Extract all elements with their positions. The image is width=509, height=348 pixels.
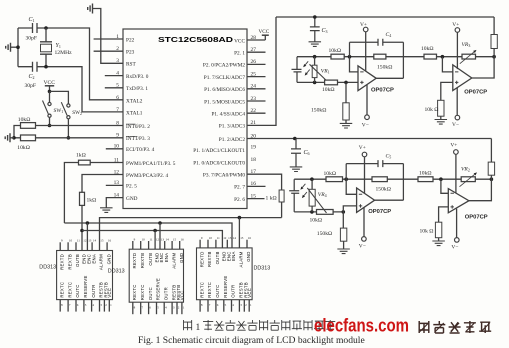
wire U3 + input to bias resistor — [441, 82, 453, 100]
svg-text:11: 11 — [77, 239, 80, 243]
wire U6 top pin ENA stub — [91, 242, 93, 250]
wire + input bias resistor drop row2 — [342, 212, 344, 228]
wire pin 13 stub — [106, 184, 123, 186]
wire row1 node line — [297, 56, 331, 58]
wire U8 bottom pin OUTC stub — [215, 300, 217, 312]
wire U8 top pin REXTD stub — [199, 240, 201, 248]
resistor 10kOhm (U5 bias) — [435, 222, 441, 238]
svg-text:P1. 7/SCLK/ADC7: P1. 7/SCLK/ADC7 — [204, 75, 246, 81]
wire node to feedback resistor — [344, 56, 374, 58]
wire U6 bottom pin VCC stub — [108, 300, 110, 312]
svg-text:13: 13 — [228, 236, 232, 240]
svg-text:C2: C2 — [29, 74, 35, 80]
svg-text:ENA: ENA — [91, 254, 96, 264]
svg-text:VCC: VCC — [234, 38, 245, 44]
light arrows onto sensor row2 — [302, 184, 305, 188]
svg-text:10kΩ: 10kΩ — [324, 171, 337, 177]
wire pin 12 PWM3 down to vertical 1k — [82, 175, 123, 193]
wire U6 bottom pin RESTB stub — [99, 300, 101, 312]
terminal V- (U2) — [366, 85, 368, 115]
svg-text:13: 13 — [88, 239, 92, 243]
svg-text:ECI/T0/P3. 4: ECI/T0/P3. 4 — [126, 147, 155, 153]
svg-text:9: 9 — [116, 133, 119, 139]
svg-text:C3: C3 — [322, 28, 328, 34]
wire + input bias resistor drop — [345, 82, 347, 102]
wire U6 bottom pin RESERVE stub — [83, 300, 85, 312]
svg-text:DD313: DD313 — [108, 268, 125, 274]
wire pin 2 stub — [94, 50, 123, 52]
svg-text:PWM1/PCA1/T1/P3. 5: PWM1/PCA1/T1/P3. 5 — [126, 161, 176, 167]
svg-text:C5: C5 — [386, 153, 392, 159]
svg-text:25: 25 — [251, 71, 257, 77]
wire U4 output — [375, 199, 404, 201]
wire rail 1 (top sensor excitation rail) — [276, 16, 494, 18]
resistor 150kOhm (U2 bias) — [343, 103, 349, 120]
wire XTAL2 net: C1/crystal top node to pin 6 — [46, 28, 123, 100]
wire U6 bottom pin OUTR stub — [91, 300, 93, 312]
svg-text:VR4: VR4 — [318, 192, 327, 198]
photoresistor VR4 — [310, 177, 314, 181]
capacitor C1 30pF — [33, 23, 38, 33]
svg-text:OP07CP: OP07CP — [368, 209, 391, 215]
node L1 to chip3 — [238, 216, 242, 220]
IC U7 DD313 body — [129, 249, 183, 302]
svg-text:VCC: VCC — [259, 29, 270, 35]
svg-text:STC12C5608AD: STC12C5608AD — [158, 35, 234, 44]
svg-text:14: 14 — [166, 237, 170, 241]
svg-text:V−: V− — [451, 245, 458, 251]
wire left sensor rail row1 with series capacitor — [292, 57, 302, 83]
svg-text:V+: V+ — [450, 143, 457, 149]
terminal V- (U3) — [456, 88, 458, 116]
node crystal bottom — [44, 65, 48, 69]
svg-text:18: 18 — [251, 157, 257, 163]
svg-text:1: 1 — [196, 323, 201, 333]
svg-text:16: 16 — [181, 237, 185, 241]
resistor 10kOhm (VR4 top to node) — [326, 177, 343, 182]
wire U7 top pin REXTB stub — [140, 241, 142, 249]
svg-text:INT0/P3. 2: INT0/P3. 2 — [126, 124, 150, 130]
wire pin 11 PWM1 to 1k and down to bus line L2 — [64, 163, 123, 224]
svg-text:22: 22 — [251, 108, 257, 114]
svg-text:1kΩ: 1kΩ — [76, 153, 86, 159]
capacitor C2 30pF — [33, 62, 38, 72]
wire VCC to SW2 top — [50, 91, 69, 104]
svg-text:16: 16 — [248, 236, 252, 240]
svg-text:12: 12 — [223, 236, 227, 240]
resistor 10kOhm (INT1 pull-down) — [21, 135, 36, 141]
terminal V- (U5) — [456, 209, 458, 238]
svg-text:REXTD: REXTD — [199, 251, 204, 267]
svg-text:REXTC: REXTC — [207, 282, 212, 298]
crystal Y1 12MHz — [40, 28, 52, 67]
node rail2 C6 tap — [293, 137, 297, 141]
svg-text:14: 14 — [114, 192, 120, 198]
wire U7 top pin OUTB stub — [148, 241, 150, 249]
ground (U2 bias resistor) — [340, 123, 353, 128]
svg-text:Fig. 1 Schematic circuit dia: Fig. 1 Schematic circuit diagram of LCD … — [138, 335, 365, 346]
svg-text:10: 10 — [142, 237, 146, 241]
svg-text:ALARM: ALARM — [171, 253, 176, 269]
svg-text:30pF: 30pF — [26, 36, 38, 42]
svg-text:10kΩ: 10kΩ — [322, 87, 335, 93]
svg-text:27: 27 — [251, 47, 257, 53]
ground (U4 bias resistor) — [337, 249, 350, 254]
svg-text:10: 10 — [114, 144, 120, 150]
svg-text:10kΩ: 10kΩ — [421, 46, 434, 52]
resistor 1kOhm (PWM0 series, vertical) — [279, 190, 284, 202]
svg-text:VCC: VCC — [107, 288, 112, 298]
svg-text:P1. 5/MOSI/ADC5: P1. 5/MOSI/ADC5 — [204, 99, 245, 105]
wire pin 21 P1.3/ADC3 up to sensor rail 1 — [247, 17, 276, 125]
svg-text:TxD/P3. 1: TxD/P3. 1 — [126, 86, 148, 92]
svg-text:elecfans.com: elecfans.com — [314, 315, 409, 336]
node L2 chip2 drop — [158, 221, 162, 225]
wire U7 bottom pin RESTB stub — [171, 302, 173, 314]
wire U8 bottom pin OUTR stub — [231, 300, 233, 312]
switch SW2 — [67, 104, 70, 107]
svg-text:10k Ω: 10k Ω — [425, 107, 439, 113]
wire U8 bottom pin RESERVE stub — [223, 300, 225, 312]
svg-text:DD313: DD313 — [254, 266, 271, 272]
resistor 10kOhm (U5 input) — [418, 177, 433, 182]
wire pin 24 stub — [247, 88, 266, 90]
wire U7 bottom pin REXTC stub — [140, 302, 142, 314]
wire U6 top pin GND stub — [106, 242, 108, 250]
wire U7 top pin GND stub — [179, 241, 181, 249]
svg-text:V+: V+ — [359, 145, 366, 151]
wire VR4 bottom rail row2 — [294, 211, 343, 213]
wire U8 top pin ENC stub — [226, 240, 228, 248]
svg-text:P22: P22 — [126, 37, 135, 43]
ground (top left, sideways) for RST net — [88, 4, 93, 14]
wire U8 bottom pin REXTC stub — [199, 300, 201, 312]
svg-text:OUTC: OUTC — [75, 284, 80, 297]
svg-text:OUTB: OUTB — [215, 251, 220, 264]
wire pin 5 stub — [105, 87, 123, 89]
svg-text:V−: V− — [362, 122, 369, 128]
svg-text:GND: GND — [126, 196, 138, 202]
wire U6 bottom pin RESTB stub — [103, 300, 105, 312]
light arrows onto sensor row1 — [305, 61, 308, 65]
svg-text:VCC: VCC — [247, 288, 252, 298]
svg-text:2: 2 — [116, 46, 119, 52]
wire U7 bottom pin OUTC stub — [148, 302, 150, 314]
svg-text:P1. 1/ADC1/CLKOUT1: P1. 1/ADC1/CLKOUT1 — [193, 148, 245, 154]
svg-text:150kΩ: 150kΩ — [311, 107, 326, 113]
svg-text:P2. 5: P2. 5 — [126, 184, 137, 190]
wire L1 drop to chip3 — [238, 218, 240, 248]
svg-text:REXTC: REXTC — [199, 282, 204, 298]
svg-text:P1. 2/ADC2: P1. 2/ADC2 — [219, 137, 246, 143]
resistor 10kOhm (rail1 to U3 node, vertical) — [493, 17, 495, 57]
svg-text:C1: C1 — [29, 17, 35, 23]
svg-text:V−: V− — [359, 244, 366, 250]
svg-text:6: 6 — [116, 95, 119, 101]
svg-text:OP07CP: OP07CP — [371, 87, 394, 93]
wire left capacitor rail — [17, 28, 19, 67]
IC U1 STC12C5608AD body — [123, 29, 247, 209]
wire pin 26 stub — [247, 63, 266, 65]
capacitor C6 (rail2 decoupling) — [291, 139, 301, 167]
svg-text:10kΩ: 10kΩ — [17, 145, 30, 151]
svg-text:V−: V− — [452, 122, 459, 128]
wire jog to U4 + input — [343, 206, 356, 212]
svg-text:ALARM: ALARM — [239, 251, 244, 267]
wire SW1 to INT0 row — [49, 117, 51, 125]
op-amp U4 OP07CP (row2 left) — [357, 188, 375, 212]
wire pin 23 stub — [247, 100, 266, 102]
capacitor C5 (U4 feedback) — [346, 160, 403, 200]
svg-text:P1. 3/ADC3: P1. 3/ADC3 — [219, 124, 246, 130]
svg-text:DD313: DD313 — [39, 264, 56, 270]
svg-text:30pF: 30pF — [25, 83, 37, 89]
wire pin 16 stub — [247, 185, 266, 187]
resistor 10kOhm (INT0 pull-down) — [21, 123, 36, 129]
svg-text:10: 10 — [69, 239, 73, 243]
svg-text:5: 5 — [116, 83, 119, 89]
wire pin 22 stub — [247, 112, 266, 114]
wire pin 28 to VCC symbol — [247, 35, 265, 40]
wire bus line L1 (EN net 1) — [100, 218, 282, 251]
wire pin 10 stub — [106, 148, 123, 150]
wire U6 bottom pin OUTC stub — [75, 300, 77, 312]
terminal V- (U4) — [363, 207, 365, 236]
wire pin 15 stub — [247, 198, 265, 200]
svg-text:REXTB: REXTB — [67, 254, 72, 270]
switch SW1 — [48, 102, 51, 105]
svg-text:REXTC: REXTC — [140, 284, 145, 300]
svg-text:19: 19 — [251, 145, 257, 151]
wire L2 drop chip2 — [159, 223, 161, 249]
svg-text:OUTR: OUTR — [163, 287, 168, 300]
wire 1k down to bus line L1 — [281, 202, 283, 218]
wire U7 bottom pin OUTR stub — [163, 302, 165, 314]
svg-text:REXTC: REXTC — [67, 282, 72, 298]
node L3 chip2 drop — [153, 229, 157, 233]
svg-text:REXTC: REXTC — [59, 282, 64, 298]
svg-text:REXTB: REXTB — [140, 253, 145, 269]
svg-text:14: 14 — [233, 236, 237, 240]
wire U8 top pin OUTB stub — [215, 240, 217, 248]
svg-text:23: 23 — [251, 96, 257, 102]
power VCC symbol at pin 28 — [262, 34, 269, 36]
wire pin 20 P1.2/ADC2 rail 2 — [247, 138, 491, 140]
watermark Chinese brand — [419, 321, 429, 333]
wire pin 1 stub — [94, 38, 123, 40]
svg-text:15: 15 — [240, 236, 244, 240]
resistor 10kOhm (U3 input) — [424, 54, 437, 59]
svg-text:1kΩ: 1kΩ — [87, 198, 97, 204]
wire VR1 bottom rail to U2 + input — [297, 81, 358, 83]
svg-text:13: 13 — [114, 180, 120, 186]
svg-text:10kΩ: 10kΩ — [329, 48, 342, 54]
svg-text:GND: GND — [106, 254, 111, 264]
svg-text:10kΩ: 10kΩ — [18, 117, 31, 123]
resistor 10kOhm (rail2 to U5 node, vertical) — [490, 139, 492, 180]
ground (U5 bias resistor) — [432, 241, 445, 246]
svg-text:11: 11 — [114, 157, 119, 163]
svg-text:P2. 7: P2. 7 — [234, 185, 245, 191]
wire U8 top pin REXTB stub — [207, 240, 209, 248]
wire node to U2 inverting input — [350, 57, 359, 72]
resistor 10kOhm (VR1 top to node) — [331, 54, 344, 59]
op-amp U5 OP07CP (row2 right) — [448, 189, 469, 213]
svg-text:INT1/P3. 3: INT1/P3. 3 — [126, 136, 150, 142]
wire SW2 to INT1 row — [67, 119, 69, 138]
svg-text:12MHz: 12MHz — [55, 50, 73, 56]
svg-text:P3. 7/PCA0/PWM0: P3. 7/PCA0/PWM0 — [203, 173, 245, 179]
resistor 10kOhm (VR1 bottom) — [325, 80, 338, 85]
svg-text:4: 4 — [116, 70, 119, 76]
svg-text:REXTD: REXTD — [132, 253, 137, 269]
svg-text:7: 7 — [116, 107, 119, 113]
svg-text:12: 12 — [114, 169, 120, 175]
svg-text:ALARM: ALARM — [99, 254, 104, 270]
svg-text:P1. 0/ADC0/CLKOUT0: P1. 0/ADC0/CLKOUT0 — [193, 160, 245, 166]
wire row2 node line — [294, 178, 326, 180]
wire node to U4 inverting input — [346, 179, 356, 194]
op-amp U2 OP07CP (row1 left) — [358, 66, 376, 91]
ground (C6) — [290, 167, 303, 172]
wire U5 output feedback — [469, 179, 492, 201]
wire U6 top pin REXTB stub — [67, 242, 69, 250]
svg-text:XTAL2: XTAL2 — [126, 98, 143, 104]
wire bus line L3 (EN net 3) — [82, 231, 222, 248]
svg-text:Y1: Y1 — [56, 43, 61, 49]
svg-text:P1. 6/MISO/ADC6: P1. 6/MISO/ADC6 — [204, 87, 245, 93]
node L2 chip1 drop — [86, 221, 90, 225]
svg-text:10kΩ: 10kΩ — [310, 218, 323, 224]
wire pin 4 stub — [105, 75, 123, 77]
wire L3 drop chip2 — [154, 231, 156, 250]
ground (U3 bias resistor) — [435, 120, 448, 125]
wire left sensor rail row2 with series capacitor — [289, 179, 299, 212]
svg-text:ENA: ENA — [164, 253, 169, 263]
IC U8 DD313 body — [197, 248, 253, 300]
svg-text:8: 8 — [116, 120, 119, 126]
svg-text:P1. 4/SS/ADC4: P1. 4/SS/ADC4 — [211, 112, 245, 118]
resistor 150kOhm (U2 feedback) — [374, 54, 386, 59]
svg-text:P2. 6: P2. 6 — [234, 197, 245, 203]
svg-text:REXTB: REXTB — [207, 251, 212, 267]
wire pin 17 PWM0 to vertical 1k — [247, 174, 282, 190]
svg-text:RESERVE: RESERVE — [156, 278, 161, 300]
wire U5 inverting input — [441, 179, 448, 193]
wire U6 bottom pin REXTC stub — [67, 300, 69, 312]
svg-text:15: 15 — [173, 237, 177, 241]
svg-text:GND: GND — [246, 251, 251, 261]
svg-text:P2. 0/PCA2/PWM2: P2. 0/PCA2/PWM2 — [203, 63, 245, 69]
wire U6 bottom pin REXTC stub — [59, 300, 61, 312]
wire resistor commons to ground — [14, 126, 21, 138]
svg-text:1 kΩ: 1 kΩ — [266, 195, 277, 201]
wire bus line L2 (EN net 2) — [64, 223, 232, 248]
svg-text:OUTB: OUTB — [75, 254, 80, 267]
ground (switch resistors, sideways) — [5, 133, 10, 142]
wire ground to rail — [11, 46, 19, 48]
svg-text:11: 11 — [217, 236, 220, 240]
svg-text:PWM3/PCA3/P2. 4: PWM3/PCA3/P2. 4 — [126, 173, 168, 179]
svg-text:RxD/P3. 0: RxD/P3. 0 — [126, 74, 149, 80]
wire U8 bottom pin RESTB stub — [243, 300, 245, 312]
svg-text:24: 24 — [251, 84, 257, 90]
wire U7 bottom pin REXTC stub — [132, 302, 134, 314]
svg-text:15: 15 — [100, 239, 104, 243]
svg-text:OUTC: OUTC — [215, 285, 220, 298]
wire U8 top pin GND stub — [246, 240, 248, 248]
wire U3 output feedback — [472, 57, 494, 78]
ground (C3) — [309, 42, 322, 47]
svg-text:16: 16 — [108, 239, 112, 243]
wire U3 inverting input — [442, 57, 452, 72]
svg-text:VR1: VR1 — [321, 68, 330, 74]
wire U8 bottom pin REXTC stub — [207, 300, 209, 312]
ground (left of crystal, sideways) — [6, 43, 11, 52]
svg-text:12: 12 — [156, 237, 160, 241]
resistor 10kOhm (U3 bias) — [438, 100, 444, 116]
svg-text:XTAL1: XTAL1 — [126, 111, 143, 117]
svg-text:12: 12 — [83, 239, 87, 243]
node crystal top — [44, 26, 48, 30]
wire INT1/P3.3 row to pin 9 — [36, 137, 124, 139]
svg-text:RESERVE: RESERVE — [223, 275, 228, 297]
svg-text:VR2: VR2 — [461, 166, 470, 172]
svg-text:16: 16 — [251, 181, 257, 187]
svg-text:3: 3 — [116, 58, 119, 64]
resistor 1kOhm (P3.5 series) — [79, 160, 91, 165]
wire U7 bottom pin RESTB stub — [176, 302, 178, 314]
wire U7 bottom pin RESERVE stub — [156, 302, 158, 314]
svg-text:C4: C4 — [386, 32, 392, 38]
svg-text:1: 1 — [116, 34, 119, 40]
wire RST net: top ground to pin 3 RST — [93, 9, 124, 64]
potentiometer VR3 — [462, 54, 476, 59]
wire U8 bottom pin RESTB stub — [238, 300, 240, 312]
svg-text:14: 14 — [93, 239, 97, 243]
svg-text:10k Ω: 10k Ω — [420, 229, 434, 235]
potentiometer VR2 — [461, 177, 475, 182]
svg-text:11: 11 — [149, 237, 152, 241]
wire U7 bottom pin VCC stub — [181, 302, 183, 314]
wire U5 + input to bias resistor — [439, 207, 449, 222]
ground (MCU GND pin) — [100, 208, 113, 213]
svg-text:OUTR: OUTR — [231, 285, 236, 298]
svg-text:REXTD: REXTD — [59, 254, 64, 270]
node rail-ground junction — [16, 45, 20, 49]
IC U6 DD313 body — [57, 251, 113, 300]
op-amp U3 OP07CP (row1 right) — [453, 65, 472, 91]
svg-text:150kΩ: 150kΩ — [317, 231, 332, 237]
wire U7 top pin REXTD stub — [132, 241, 134, 249]
svg-text:150kΩ: 150kΩ — [376, 187, 391, 193]
wire pin 25 stub — [247, 76, 266, 78]
svg-text:P2. 1: P2. 1 — [234, 51, 245, 57]
wire L2 drop chip1 — [86, 223, 88, 251]
photoresistor VR1 — [313, 55, 317, 59]
capacitor C4 (U2 feedback) — [350, 39, 404, 78]
svg-text:OP07CP: OP07CP — [464, 89, 487, 95]
svg-text:P23: P23 — [126, 50, 135, 56]
svg-text:13: 13 — [161, 237, 165, 241]
resistor 10kOhm (VR4 bottom) — [317, 210, 334, 215]
svg-text:150kΩ: 150kΩ — [377, 64, 392, 70]
wire U7 top pin ENA stub — [164, 241, 166, 249]
resistor 150kOhm (U4 feedback) — [372, 177, 387, 182]
wire pin 27 stub — [247, 51, 266, 53]
svg-text:REXTC: REXTC — [132, 284, 137, 300]
wire vertical 1k to bus line L3 and chip1 END pin — [81, 205, 83, 250]
